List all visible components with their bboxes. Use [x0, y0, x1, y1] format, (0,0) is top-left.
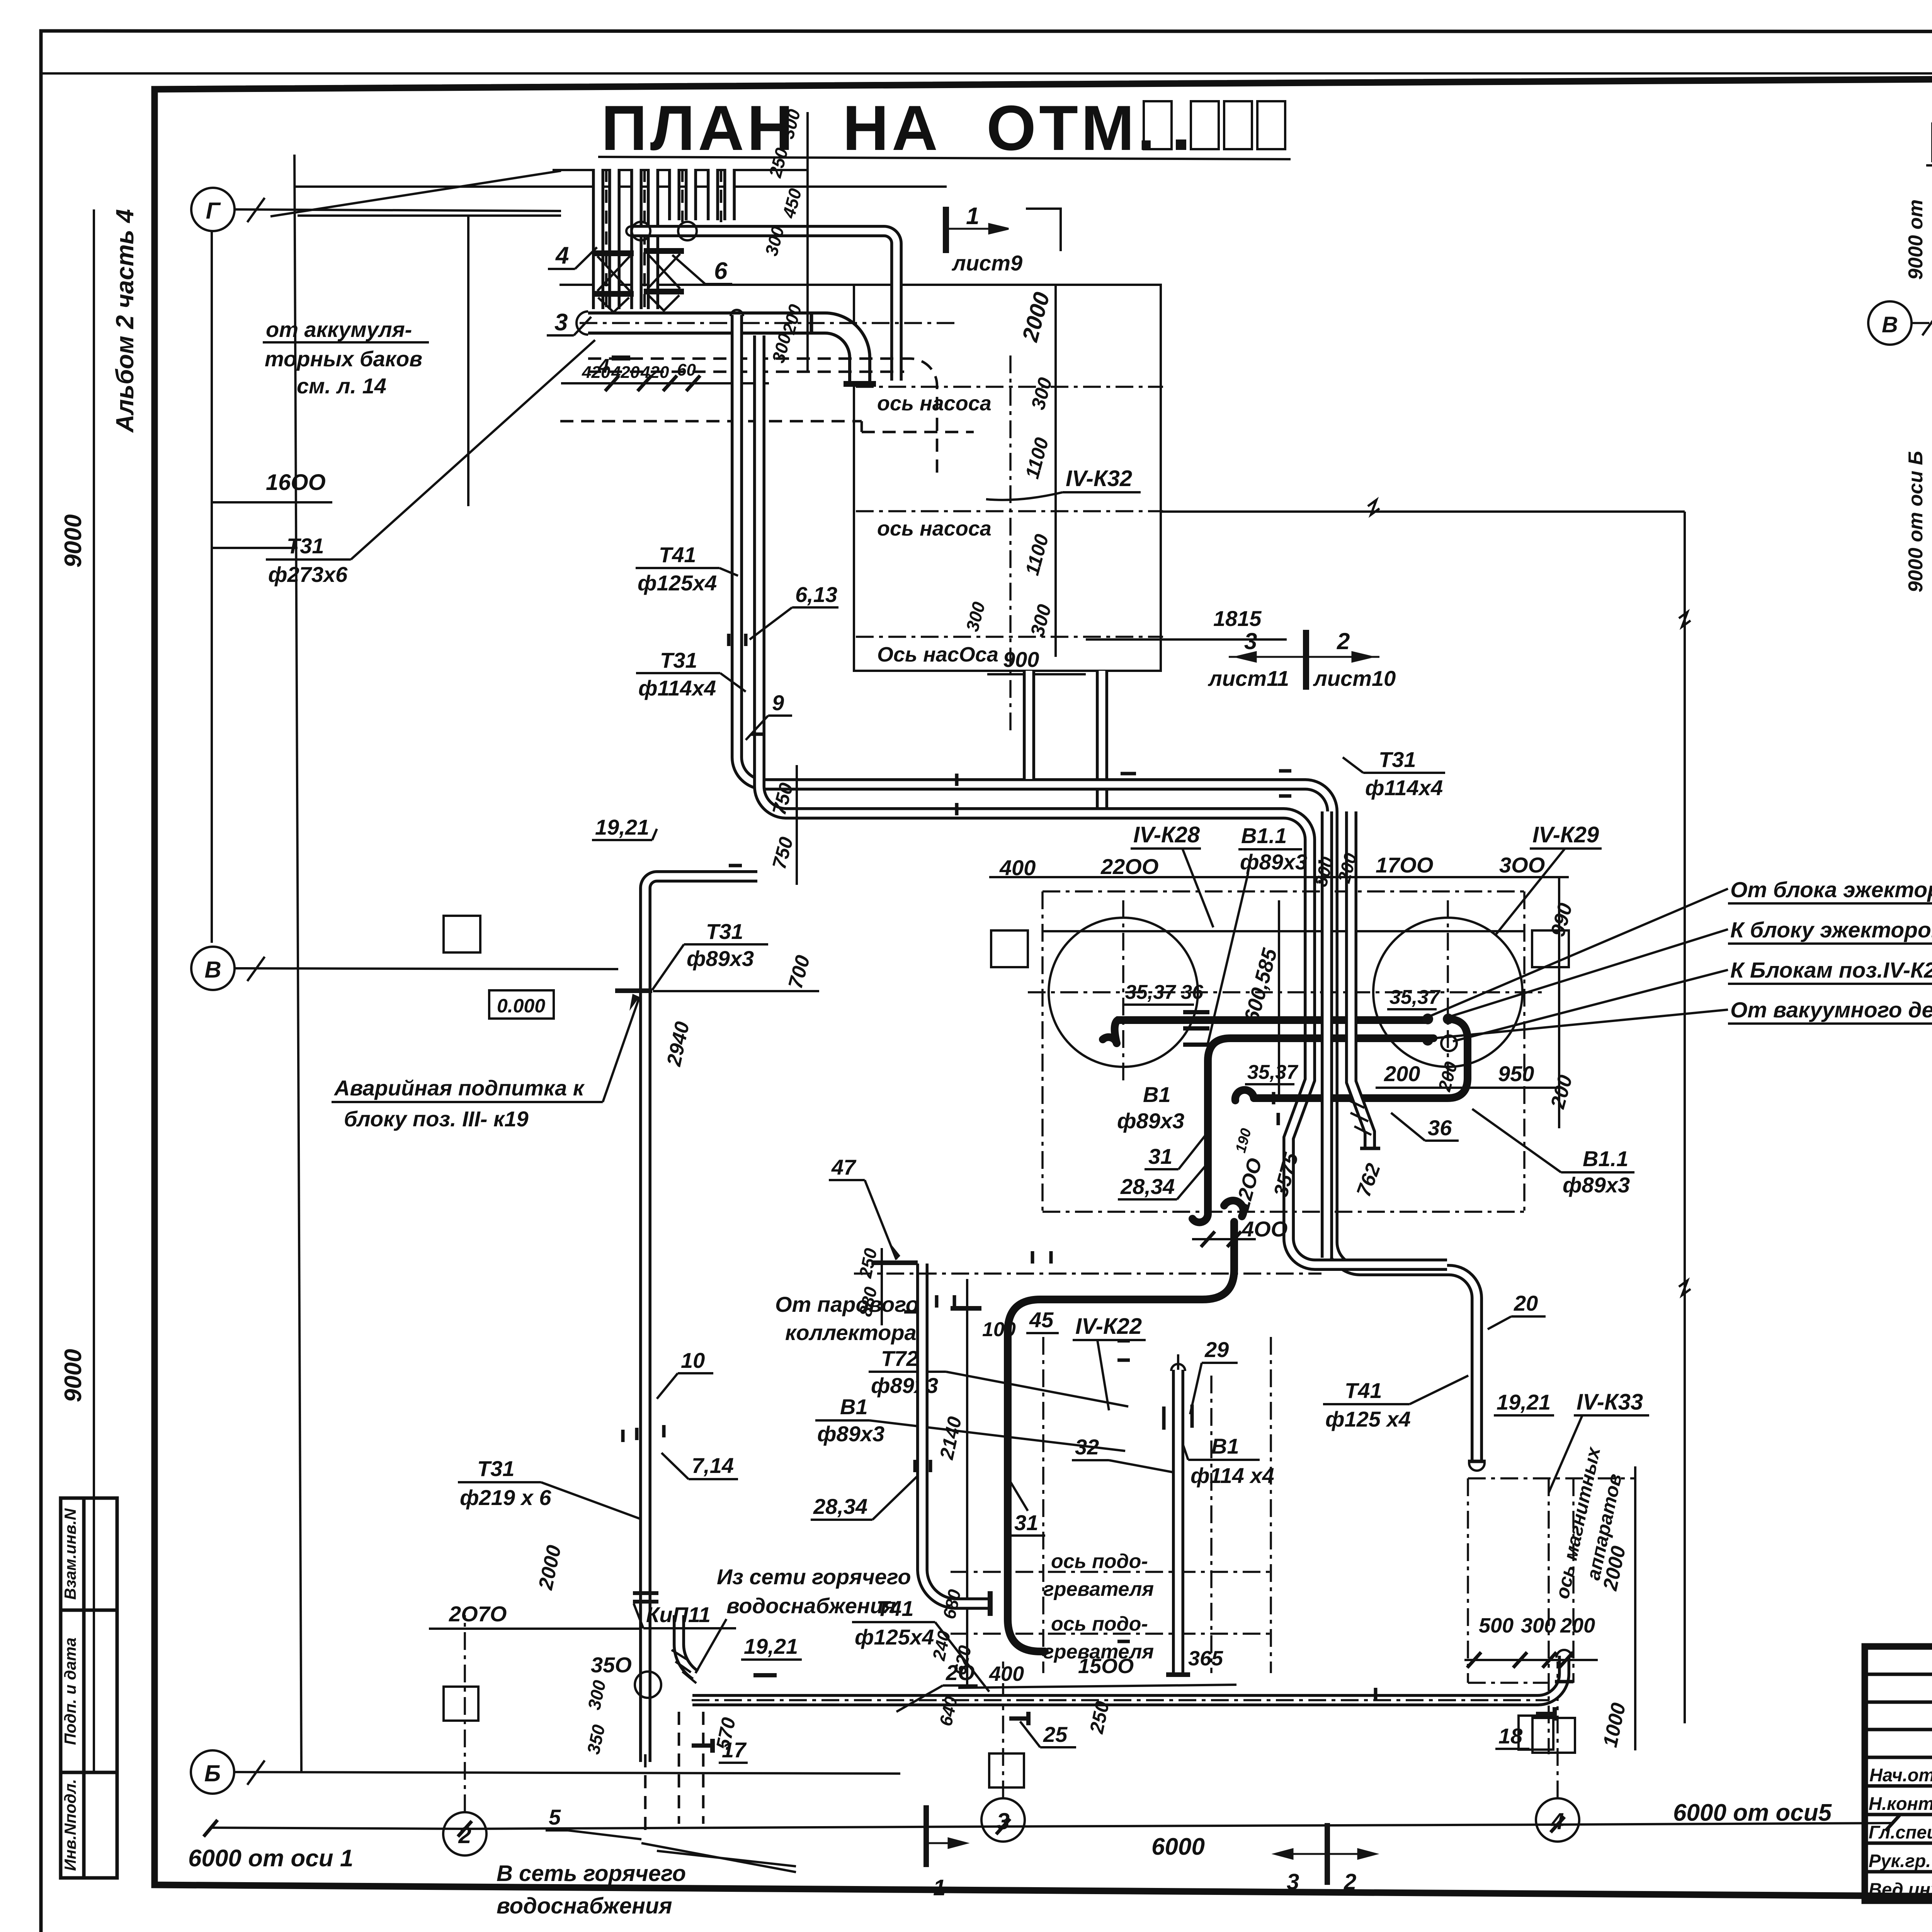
building wall east upper	[1160, 285, 1162, 512]
svg-text:Н.контр: Н.контр	[1869, 1793, 1932, 1814]
pump axis 2	[856, 510, 1163, 512]
svg-text:коллектора: коллектора	[785, 1320, 917, 1345]
pipe E lower dashes	[679, 1712, 703, 1824]
svg-text:9000 от: 9000 от	[1905, 199, 1927, 280]
svg-text:17: 17	[722, 1738, 747, 1762]
svg-text:Т41: Т41	[876, 1596, 914, 1621]
svg-text:400: 400	[989, 1662, 1024, 1685]
section mark 1 лист9 bar	[943, 207, 949, 253]
thick tick 45	[951, 1306, 981, 1311]
svg-text:гревателя: гревателя	[1043, 1578, 1154, 1600]
section cross 3-2 bar	[1303, 630, 1309, 690]
heater axis box v1	[1042, 1337, 1044, 1673]
dim line 400	[1192, 1238, 1256, 1240]
svg-text:18: 18	[1498, 1724, 1523, 1748]
svg-text:ось подо-: ось подо-	[1051, 1613, 1148, 1635]
leaders to nodes	[1430, 889, 1728, 1016]
right axis В tick	[1922, 311, 1932, 335]
svg-text:Т41: Т41	[1345, 1378, 1382, 1403]
section cross arrows	[1229, 652, 1379, 662]
svg-text:Т31: Т31	[1379, 747, 1416, 772]
svg-text:2О7О: 2О7О	[449, 1602, 507, 1626]
riser pipe 4	[707, 169, 719, 220]
pump flange bar	[844, 381, 876, 387]
column square Б-1	[444, 1687, 478, 1721]
column square Б-2	[989, 1753, 1024, 1787]
svg-text:35,37: 35,37	[1247, 1061, 1298, 1083]
wall break mark 1	[1679, 612, 1690, 627]
node dot 1	[1422, 1014, 1433, 1024]
leader to pipe5	[657, 1851, 796, 1866]
leader	[351, 340, 595, 560]
title 2 underline	[1926, 165, 1932, 168]
svg-text:ось подо-: ось подо-	[1051, 1550, 1148, 1573]
svg-text:Инв.Nподл.: Инв.Nподл.	[61, 1779, 79, 1871]
KиП11 flange pair on pipe D	[633, 1591, 658, 1595]
svg-text:19,21: 19,21	[744, 1634, 798, 1658]
dim line 2-3	[466, 1827, 1003, 1829]
axis circle Б	[191, 1750, 234, 1794]
ticks on pipe D	[623, 1425, 664, 1442]
svg-text:Подп. и дата: Подп. и дата	[61, 1638, 79, 1745]
right plan axis circle В	[1868, 301, 1912, 345]
column square В-1	[444, 916, 480, 952]
axis column line	[211, 231, 213, 943]
svg-text:К Блокам поз.IV-К23и IV-К24: К Блокам поз.IV-К23и IV-К24	[1730, 958, 1932, 983]
heater axis h1	[951, 1571, 1271, 1573]
riser pipe 1	[592, 169, 604, 309]
tick 19,21	[753, 1673, 777, 1677]
header pipe Т31 ф273х6	[588, 323, 860, 382]
riser line over manifold	[553, 169, 808, 171]
svg-text:10: 10	[681, 1348, 705, 1372]
svg-text:19,21: 19,21	[595, 815, 649, 839]
svg-text:Т31: Т31	[477, 1456, 515, 1481]
pipe C centerline	[692, 1699, 1549, 1701]
dim line 2070	[429, 1628, 641, 1630]
funnel B	[648, 295, 679, 311]
svg-text:В1.1: В1.1	[1583, 1146, 1628, 1171]
svg-text:ф89х3: ф89х3	[817, 1422, 884, 1446]
tick 18	[1536, 1712, 1555, 1716]
axis Г tick	[247, 198, 265, 222]
svg-text:25: 25	[1043, 1722, 1068, 1747]
wall break mark 2	[1679, 1281, 1690, 1295]
dim line 1500	[958, 1685, 1236, 1688]
bottom dim line axis1-2	[211, 1828, 466, 1829]
svg-text:6000: 6000	[1151, 1833, 1205, 1860]
svg-text:17ОО: 17ОО	[1376, 853, 1433, 877]
axis В tick	[247, 957, 265, 981]
riser pipe 3	[668, 169, 680, 220]
hook cap left of В1.1	[1235, 1090, 1254, 1100]
tick pairs on run A	[729, 634, 1376, 1700]
svg-text:9000: 9000	[60, 1349, 87, 1402]
svg-text:Аварийная подпитка к: Аварийная подпитка к	[333, 1076, 585, 1100]
svg-text:IV-К29: IV-К29	[1532, 822, 1599, 847]
svg-text:31: 31	[1014, 1510, 1038, 1535]
svg-text:60: 60	[677, 361, 696, 379]
В1 side dash-dot	[1210, 1376, 1213, 1673]
title 1 underline	[598, 157, 1291, 159]
ticks	[915, 1460, 930, 1472]
dim line top	[298, 214, 561, 217]
svg-text:Нач.отд: Нач.отд	[1869, 1765, 1932, 1785]
dim ticks	[605, 376, 700, 391]
svg-text:400: 400	[999, 855, 1036, 880]
dim line above tanks	[989, 876, 1569, 878]
bottom dim ticks	[204, 1815, 1900, 1837]
svg-text:Вед.инж: Вед.инж	[1869, 1879, 1932, 1900]
svg-text:блоку поз. III- к19: блоку поз. III- к19	[344, 1107, 529, 1131]
dim line 900/1815	[987, 673, 1086, 675]
elevation box 0.000	[489, 990, 554, 1019]
svg-text:Т41: Т41	[659, 543, 696, 567]
column square Б-3	[1519, 1716, 1553, 1750]
svg-text:торных баков: торных баков	[265, 347, 422, 371]
svg-text:ф114 х4: ф114 х4	[1190, 1463, 1274, 1488]
svg-text:7,14: 7,14	[692, 1453, 734, 1478]
section mark box	[1026, 209, 1061, 251]
svg-text:В1: В1	[1211, 1434, 1239, 1458]
leader от аккумуляторных	[270, 171, 561, 216]
vertical pipe V3 with diagonal stub	[1351, 811, 1370, 1147]
flange bars valve stack A	[594, 248, 684, 297]
V3 stub hatches	[1347, 1099, 1371, 1135]
axis 3 riser dash	[1002, 1662, 1004, 1798]
svg-text:9000: 9000	[60, 514, 87, 568]
svg-text:В: В	[1882, 312, 1898, 337]
svg-text:2: 2	[1337, 628, 1350, 654]
svg-text:500: 500	[1479, 1614, 1514, 1637]
svg-text:ф89х3: ф89х3	[687, 946, 754, 971]
pipe E hatches	[672, 1650, 696, 1683]
svg-text:5: 5	[549, 1805, 561, 1829]
bottom-left label column box	[61, 1498, 117, 1878]
heater pipe loop	[922, 1264, 988, 1604]
heater dim line	[966, 1279, 968, 1688]
magnet apparatus dash box	[1468, 1478, 1634, 1754]
section mark 1 arrow	[946, 224, 1009, 233]
svg-text:1815: 1815	[1213, 606, 1262, 631]
axis line Б	[234, 1772, 900, 1774]
svg-text:ф125х4: ф125х4	[855, 1625, 934, 1649]
svg-text:водоснабжения: водоснабжения	[726, 1594, 896, 1618]
svg-text:22ОО: 22ОО	[1100, 854, 1158, 879]
dim line 4-5	[1558, 1823, 1893, 1825]
pump dim column line	[1054, 286, 1057, 657]
svg-text:2: 2	[1344, 1869, 1356, 1895]
pump circle 1	[632, 222, 650, 240]
building wall mid horizontal	[1161, 510, 1685, 513]
thick pipe Т72 steam run	[1008, 1222, 1234, 1651]
svg-text:35,37: 35,37	[1389, 986, 1440, 1009]
underline	[266, 558, 351, 561]
svg-text:ф219 х 6: ф219 х 6	[460, 1485, 551, 1510]
thick rounded rect pipe В1.1	[1208, 1038, 1434, 1213]
svg-text:420: 420	[640, 363, 669, 382]
В1 pipe centerline stub	[1177, 1354, 1179, 1370]
pipe E hot water inlet curve	[679, 1615, 696, 1675]
pipe A end cap	[1468, 1460, 1486, 1463]
svg-text:лист9: лист9	[951, 251, 1022, 275]
svg-text:Т72: Т72	[881, 1346, 918, 1371]
dim line 700	[653, 990, 819, 992]
svg-text:200: 200	[1384, 1061, 1420, 1086]
svg-text:Т31: Т31	[287, 534, 324, 558]
axis line of 400 group	[854, 1272, 1321, 1275]
svg-text:ф125 х4: ф125 х4	[1325, 1407, 1411, 1431]
header left cap	[577, 311, 588, 335]
pipe D top tee tick	[615, 988, 652, 993]
svg-text:365: 365	[1188, 1647, 1223, 1670]
deaerator zone dash-dot box	[1043, 891, 1524, 1212]
svg-text:3: 3	[1244, 628, 1257, 654]
svg-text:6: 6	[714, 258, 728, 284]
label column divider	[82, 1498, 86, 1878]
svg-text:Альбом 2 часть 4: Альбом 2 часть 4	[111, 209, 139, 433]
arrow 47	[891, 1244, 900, 1260]
svg-text:ф114х4: ф114х4	[638, 676, 716, 700]
dim line under manifold	[561, 382, 769, 384]
dim line 1600	[211, 501, 332, 503]
svg-text:В1.1: В1.1	[1241, 823, 1287, 848]
svg-text:От блока эжекторов вакуумного: От блока эжекторов вакуумного деаэратора	[1730, 878, 1932, 902]
pipe run D Т31 ф219х6 vertical	[645, 876, 657, 1762]
svg-text:осиГ: осиГ	[1930, 238, 1932, 287]
label column row line 1	[61, 1609, 117, 1612]
dim line 200-950	[1376, 1087, 1559, 1089]
pump room box	[854, 285, 1161, 671]
svg-text:32: 32	[1075, 1435, 1099, 1459]
svg-text:200: 200	[1560, 1614, 1595, 1637]
svg-text:Г: Г	[206, 198, 221, 224]
svg-text:КиП11: КиП11	[646, 1602, 711, 1627]
stamp outer	[1865, 1646, 1932, 1901]
svg-text:1: 1	[966, 203, 979, 230]
wall aux vertical	[467, 216, 469, 506]
hidden pipe lower step	[560, 421, 974, 432]
svg-text:9000 от оси Б: 9000 от оси Б	[1905, 451, 1927, 592]
svg-text:К блоку эжекторов вакуумного д: К блоку эжекторов вакуумного деаэратора	[1730, 918, 1932, 942]
svg-text:лист10: лист10	[1313, 666, 1396, 690]
thick pipe upper branch to drop	[1254, 1019, 1468, 1098]
run A top cap	[731, 310, 743, 316]
svg-text:IV-К28: IV-К28	[1133, 822, 1200, 847]
funnel A	[598, 298, 629, 312]
column square В-3	[1532, 930, 1569, 967]
vertical dim line off axes	[93, 209, 95, 1772]
underline	[263, 341, 429, 344]
svg-text:31: 31	[1148, 1144, 1172, 1168]
svg-text:Ось насОса: Ось насОса	[877, 643, 998, 666]
pipe D bottom circle flange	[635, 1672, 661, 1698]
axis 4 riser dash	[1556, 1662, 1559, 1798]
ticks on В1.1	[1274, 1092, 1278, 1125]
pipe run A Т31 down and across	[737, 315, 1332, 1258]
svg-text:От парового: От парового	[775, 1292, 919, 1316]
В1 pipe bottom bar	[1166, 1672, 1190, 1677]
deaerator tank circle 1	[1049, 918, 1198, 1067]
heater axis box v2	[1270, 1337, 1272, 1673]
pump axis 1	[856, 386, 1163, 388]
hook cap bottom of left drop	[1192, 1213, 1208, 1222]
svg-text:Б: Б	[204, 1760, 221, 1786]
axis 2 riser dash	[464, 1615, 466, 1812]
svg-text:ф89х3: ф89х3	[1240, 850, 1307, 874]
hidden pipe dashes upper	[588, 359, 937, 477]
svg-text:20: 20	[1514, 1291, 1538, 1315]
section mark 1 arrowline	[927, 1838, 966, 1848]
wall line upper	[294, 185, 947, 188]
svg-text:IV-К22: IV-К22	[1075, 1314, 1142, 1339]
svg-text:6,13: 6,13	[795, 582, 837, 607]
svg-text:ось насоса: ось насоса	[877, 517, 992, 540]
node dot 2	[1443, 1014, 1454, 1024]
pump axis 3	[856, 636, 1163, 638]
svg-text:6000 от оси5: 6000 от оси5	[1673, 1799, 1832, 1826]
leader	[696, 1619, 726, 1673]
valve X stack A	[597, 256, 630, 291]
riser pipe 2	[630, 169, 643, 309]
pipe C top cap	[1556, 1650, 1572, 1658]
hidden pipe dashes lower	[588, 371, 904, 373]
pipe run A elbow to cap	[1332, 1242, 1477, 1461]
svg-text:3ОО: 3ОО	[1499, 853, 1545, 877]
building wall east	[1684, 512, 1686, 1723]
svg-text:47: 47	[831, 1155, 857, 1179]
signature row names	[1869, 1765, 1932, 1900]
svg-text:IV-К33: IV-К33	[1577, 1389, 1643, 1415]
mid wall break mark	[1368, 500, 1379, 515]
svg-text:В: В	[204, 957, 221, 983]
thick pipe tank1-tank2	[1115, 1020, 1426, 1043]
bottom axis circle 3	[981, 1798, 1025, 1842]
svg-text:950: 950	[1498, 1061, 1534, 1086]
svg-text:Гл.спец: Гл.спец	[1869, 1822, 1932, 1842]
svg-text:16ОО: 16ОО	[266, 470, 326, 495]
arrow leader	[603, 997, 639, 1102]
dim line right	[1634, 1466, 1636, 1750]
svg-text:19,21: 19,21	[1497, 1390, 1551, 1414]
svg-text:3: 3	[554, 309, 568, 336]
svg-text:35,3736: 35,3736	[1125, 981, 1204, 1003]
tanks axis horizontal	[1028, 991, 1546, 993]
pipe D feed stub	[657, 870, 757, 883]
dim vertical line right of manifold	[806, 112, 809, 371]
label column row line 2	[61, 1771, 117, 1774]
ticks on В1 pipe	[1164, 1405, 1192, 1430]
svg-text:9: 9	[772, 690, 784, 715]
axis line Г	[235, 209, 561, 211]
svg-text:1: 1	[933, 1875, 946, 1900]
svg-text:4ОО: 4ОО	[1242, 1217, 1287, 1241]
node dot 3	[1422, 1035, 1433, 1046]
heater pipe top ticks	[904, 1295, 954, 1312]
heater axis h2	[951, 1633, 1271, 1635]
pipe run C bottom long pipe	[692, 1656, 1564, 1700]
svg-text:4: 4	[555, 242, 569, 269]
svg-text:35О: 35О	[591, 1653, 632, 1677]
svg-text:От вакуумного деаэратора: От вакуумного деаэратора	[1730, 998, 1932, 1022]
svg-text:45: 45	[1029, 1308, 1054, 1332]
svg-text:28,34: 28,34	[1120, 1174, 1175, 1199]
pipe run B Т41 down and across	[759, 335, 1447, 1265]
annex closing line	[212, 547, 298, 549]
svg-text:IV-К32: IV-К32	[1066, 466, 1132, 491]
axis line В	[235, 968, 618, 969]
axis circle Г	[191, 188, 235, 231]
svg-text:ф89х3: ф89х3	[1563, 1173, 1630, 1197]
svg-text:900: 900	[1003, 647, 1039, 672]
deaerator tank circle 2	[1373, 918, 1522, 1067]
В1 pipe top cap	[1171, 1364, 1185, 1371]
bottom axis circle 2	[443, 1812, 486, 1855]
run A centerline	[737, 321, 1332, 1258]
svg-text:ф125х4: ф125х4	[638, 571, 717, 595]
vertical pipe V2 lower	[1321, 811, 1333, 1258]
svg-text:В1: В1	[840, 1395, 868, 1419]
heater pipe end bar	[988, 1591, 993, 1616]
valve X stack B	[648, 254, 680, 289]
pipe D lower dashes	[644, 1754, 647, 1832]
dim line 500300200	[1464, 1659, 1598, 1661]
section cross 3-2 bottom	[1325, 1823, 1330, 1885]
tank 1 centerline	[1122, 900, 1124, 1082]
dim line 3-4	[1003, 1825, 1558, 1827]
section mark 1 bottom bar	[923, 1805, 929, 1867]
dim column line	[881, 1248, 883, 1325]
svg-text:лист11: лист11	[1207, 666, 1289, 690]
building wall west	[294, 155, 301, 1772]
tank 2 centerline	[1447, 900, 1449, 1082]
svg-text:от аккумуля-: от аккумуля-	[266, 317, 412, 342]
stamp left table rows	[1865, 1674, 1932, 1872]
svg-text:ф273х6: ф273х6	[268, 562, 348, 587]
svg-text:6000 от оси 1: 6000 от оси 1	[188, 1845, 353, 1872]
svg-text:ф114х4: ф114х4	[1365, 776, 1443, 800]
svg-text:420: 420	[582, 363, 611, 382]
pipe end tick bars	[1183, 1010, 1209, 1047]
svg-text:ф89х3: ф89х3	[1117, 1109, 1184, 1133]
thick tick at 47 target	[871, 1260, 918, 1265]
svg-text:В1: В1	[1143, 1082, 1171, 1107]
dim line at 750	[796, 765, 798, 885]
svg-text:Из сети горячего: Из сети горячего	[717, 1565, 911, 1589]
building wall north	[560, 284, 1161, 286]
small col square 18	[1532, 1718, 1575, 1753]
V3 stub cap	[1360, 1147, 1380, 1150]
svg-text:3: 3	[1287, 1869, 1299, 1895]
header centerline	[580, 322, 954, 324]
svg-text:ось насоса: ось насоса	[877, 392, 992, 415]
svg-text:Т31: Т31	[660, 648, 697, 672]
pump room centerline	[1009, 355, 1012, 730]
axis circle В	[191, 947, 235, 990]
right plan axis В line	[1912, 322, 1932, 324]
svg-text:В сеть горячего: В сеть горячего	[497, 1861, 686, 1886]
svg-text:28,34: 28,34	[813, 1494, 867, 1519]
pump drop pipe 2	[1096, 671, 1108, 808]
pump drop pipe from room	[1023, 671, 1035, 779]
thin top rule continuation	[41, 72, 1932, 75]
Т72 hook cap	[1224, 1201, 1243, 1216]
pump circle 2	[678, 222, 697, 240]
tick 25	[1009, 1716, 1029, 1721]
svg-text:300: 300	[1521, 1614, 1556, 1637]
tick 17	[692, 1743, 711, 1748]
node circle open	[1441, 1036, 1457, 1051]
